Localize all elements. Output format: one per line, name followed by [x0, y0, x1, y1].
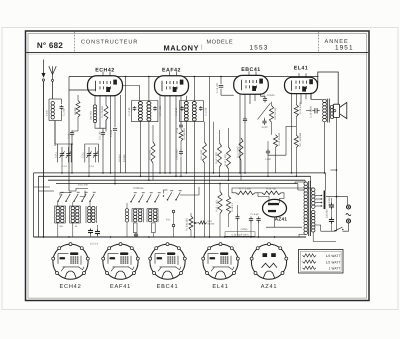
- svg-text:MODELE: MODELE: [207, 39, 234, 45]
- trimmer C01: [68, 147, 70, 154]
- svg-text:C.1 80: C.1 80: [63, 108, 66, 116]
- junction dots on bus: [43, 236, 45, 238]
- capacitor C24: [237, 215, 239, 217]
- svg-text:R.13 5.000: R.13 5.000: [299, 102, 302, 114]
- oscillator coil group 2: [146, 209, 148, 223]
- legend resistor half watt: [303, 254, 317, 257]
- socket EBC41 internal elements: [155, 252, 181, 271]
- svg-text:R.15 1 MQ: R.15 1 MQ: [215, 200, 218, 212]
- resistor R6: [203, 142, 207, 163]
- wire long vertical: [209, 77, 211, 238]
- svg-text:Osc-MO: Osc-MO: [90, 111, 93, 120]
- socket EAF41 pins: [102, 243, 140, 275]
- wire band switch routing: [69, 189, 88, 192]
- svg-text:3.000: 3.000: [262, 126, 269, 129]
- socket EAF41 outline: [103, 244, 138, 279]
- wire vertical 213.5: [213, 122, 215, 173]
- capacitor C27 filter: [258, 217, 260, 219]
- wire bus right drops: [325, 173, 327, 191]
- capacitor C0 below coil: [97, 230, 99, 232]
- power transformer core: [308, 181, 310, 236]
- wire EL41 anode to output transformer: [311, 93, 323, 99]
- svg-text:(100µ): (100µ): [241, 228, 248, 231]
- svg-text:N° 682: N° 682: [37, 41, 64, 50]
- socket ECH42 key notch: [65, 271, 77, 278]
- svg-text:C.5 C.0: C.5 C.0: [90, 243, 99, 246]
- wire IFT1 down: [139, 122, 141, 177]
- svg-text:C.28 25µF (10V): C.28 25µF (10V): [231, 233, 248, 236]
- pick-up terminals P.U.: [172, 210, 175, 213]
- power transformer LT secondary: [311, 211, 315, 233]
- socket EBC41 pins: [149, 243, 187, 275]
- power transformer HT secondary: [311, 188, 315, 209]
- rectifier tube AZ41: [263, 199, 287, 217]
- bus line 2: [39, 175, 311, 177]
- tube ECH42 electrodes: [96, 72, 117, 92]
- svg-text:R.14 1 MQ: R.14 1 MQ: [215, 152, 218, 164]
- socket ECH42 internal elements: [58, 252, 84, 271]
- capacitor C19 tone: [312, 110, 315, 112]
- transformer top wires: [298, 189, 304, 191]
- svg-text:ECH42: ECH42: [59, 284, 81, 290]
- tube EL41 electrodes: [292, 73, 313, 91]
- IFT2 tuning capacitor right: [200, 106, 202, 108]
- resistor B12: [199, 221, 207, 224]
- tube EBC41 electrodes: [242, 71, 263, 91]
- antenna coil group 1: [54, 206, 56, 223]
- socket AZ41 outline: [251, 244, 286, 279]
- IFT2 primary winding: [184, 102, 188, 121]
- wire AZ41 connections: [255, 193, 269, 203]
- svg-text:C.10 80: C.10 80: [175, 107, 178, 116]
- wattage legend table: [299, 250, 344, 274]
- wire top bus right segment to speaker: [318, 72, 338, 105]
- svg-text:EBC41: EBC41: [241, 67, 260, 73]
- socket ECH42 pins: [52, 243, 90, 275]
- svg-text:EL41: EL41: [212, 284, 228, 290]
- resistor R15: [218, 192, 222, 214]
- svg-text:C.13 100: C.13 100: [216, 83, 219, 93]
- svg-text:AZ41: AZ41: [275, 217, 288, 222]
- output transformer secondary: [330, 105, 333, 118]
- oscillator coil L2: [93, 105, 96, 123]
- wire IFT2 down: [185, 122, 187, 173]
- svg-text:1553: 1553: [250, 45, 269, 52]
- header separator line: [26, 52, 368, 54]
- wire OT primary down: [324, 122, 326, 173]
- svg-text:P.U.: P.U.: [166, 219, 171, 222]
- svg-text:2.000: 2.000: [46, 110, 49, 116]
- svg-text:1.500: 1.500: [265, 158, 272, 161]
- wire mains to terminal: [326, 197, 348, 205]
- bus line 4: [56, 183, 298, 185]
- oscillator coil single: [125, 209, 129, 222]
- capacitor C2: [102, 131, 104, 133]
- tube EAF42 electrodes: [162, 72, 183, 92]
- socket EL41 outline: [203, 244, 238, 279]
- svg-text:MALONY: MALONY: [164, 43, 200, 52]
- mains terminal 1: [347, 205, 351, 209]
- speaker: [333, 104, 339, 117]
- svg-text:C.3 50: C.3 50: [110, 129, 113, 137]
- svg-text:C.6 5.000: C.6 5.000: [176, 149, 179, 160]
- legend resistor one watt: [303, 266, 317, 269]
- wire ECH42 pins down: [94, 95, 96, 104]
- wire EBC41 pins down: [239, 94, 241, 173]
- svg-text:C.19 5.000: C.19 5.000: [310, 106, 313, 118]
- resistor R11 AVC: [239, 138, 243, 160]
- padder capacitor: [135, 233, 137, 234]
- socket EAF41 key notch: [115, 271, 127, 278]
- svg-text:CONSTRUCTEUR: CONSTRUCTEUR: [81, 39, 138, 45]
- output transformer core: [326, 99, 328, 123]
- socket AZ41 pins: [250, 243, 288, 275]
- wire mains bottom: [343, 223, 349, 231]
- resistor R14: [218, 143, 222, 167]
- svg-text:R.16 0.1: R.16 0.1: [231, 202, 234, 212]
- IFT2 tuning capacitor left: [181, 106, 183, 108]
- svg-text:1 WATT: 1 WATT: [329, 267, 341, 271]
- svg-text:C.7 1.000: C.7 1.000: [159, 105, 162, 116]
- capacitor C1 antenna: [61, 105, 63, 107]
- power transformer primary winding: [304, 182, 308, 235]
- svg-text:50.000: 50.000: [208, 223, 215, 226]
- svg-text:l'OSCILL.: l'OSCILL.: [133, 187, 144, 190]
- socket AZ41 internal elements: [262, 253, 278, 268]
- resistor R10 AVC: [227, 147, 231, 169]
- svg-text:EL41: EL41: [294, 65, 309, 71]
- output transformer primary: [323, 99, 327, 122]
- socket EAF41 internal elements: [108, 252, 134, 271]
- band switch wafer contacts: [167, 199, 169, 201]
- header divider after No box (dashed): [74, 32, 76, 53]
- svg-text:C.2 180: C.2 180: [98, 131, 101, 140]
- resistor RC cathode EL41: [294, 135, 298, 148]
- socket EL41 internal elements: [208, 252, 234, 271]
- resistor R2: [76, 101, 80, 118]
- mains capacitors: [331, 203, 333, 205]
- svg-text:C.0.1: C.0.1: [81, 152, 84, 158]
- earth terminal arrow: [43, 60, 45, 75]
- svg-text:50.000: 50.000: [118, 154, 121, 162]
- svg-text:R.C. 140/350: R.C. 140/350: [299, 132, 302, 147]
- tube EL41 envelope: [285, 77, 318, 93]
- trimmer CA2: [88, 147, 90, 154]
- resistor R12: [273, 135, 277, 148]
- volume potentiometer P1: [189, 216, 193, 230]
- header divider before ANNEE (dashed): [318, 32, 320, 53]
- bus line 3: [48, 179, 305, 181]
- mains terminal 2: [347, 219, 351, 223]
- wire coil bank 1 to bus: [57, 202, 59, 206]
- svg-text:2 x 8 µF: 2 x 8 µF: [250, 213, 259, 216]
- legend resistor half watt 2: [303, 260, 317, 263]
- coil former 2: [152, 223, 156, 233]
- inner frame line: [28, 34, 367, 299]
- wire EAF42 pins down: [159, 95, 161, 173]
- filter wire: [266, 226, 302, 228]
- svg-text:1/2 WATT: 1/2 WATT: [326, 254, 341, 258]
- trimmer box 2: [85, 144, 99, 162]
- tube ECH42 envelope: [88, 76, 123, 96]
- oscillator coil group 1: [131, 209, 133, 223]
- bus AVC line: [34, 172, 326, 174]
- svg-text:50.000: 50.000: [74, 107, 77, 115]
- svg-text:1/2 WATT: 1/2 WATT: [326, 260, 341, 264]
- voltage selector taps: [315, 195, 322, 197]
- resistor R5: [151, 142, 155, 163]
- wire vertical from bus: [68, 77, 70, 192]
- wire EL41 pins down: [291, 93, 293, 173]
- capacitor C14: [264, 119, 266, 121]
- svg-text:C.11 80: C.11 80: [205, 107, 208, 116]
- svg-text:R.12 20.000: R.12 20.000: [278, 132, 281, 146]
- IFT2 secondary winding: [192, 102, 196, 121]
- svg-text:EBC41: EBC41: [157, 284, 179, 290]
- svg-text:EAF41: EAF41: [110, 284, 131, 290]
- tube EAF42 envelope: [155, 76, 189, 96]
- voltage selector bar: [324, 191, 326, 210]
- svg-text:R.11 2 MQ: R.11 2 MQ: [236, 146, 239, 158]
- outer frame: [26, 31, 370, 301]
- resistor R16b: [226, 196, 230, 214]
- svg-text:C.0.1: C.0.1: [89, 165, 95, 168]
- svg-text:ECH42: ECH42: [95, 68, 114, 74]
- IFT1 tuning capacitor left: [134, 106, 136, 108]
- svg-text:C.A.1: C.A.1: [54, 151, 57, 158]
- capacitor C18 coupling: [180, 123, 182, 125]
- svg-text:C.17 80: C.17 80: [128, 107, 131, 116]
- socket ECH42 outline: [53, 244, 88, 279]
- trimmer CA1: [61, 147, 63, 154]
- socket EL41 pins: [202, 243, 240, 275]
- socket EBC41 outline: [150, 244, 185, 279]
- junction dots on buses: [110, 172, 112, 174]
- wire transformer bottom: [299, 235, 306, 238]
- IF transformer 2 frame: [179, 101, 181, 122]
- antenna coil group 3: [85, 206, 87, 223]
- coil former 1: [133, 223, 137, 233]
- IF transformer 1 frame: [131, 101, 133, 122]
- socket EL41 key notch: [215, 271, 227, 278]
- HT+ top bus wire: [69, 76, 319, 78]
- wire EL41 cathode branch: [286, 125, 296, 127]
- wire grid cap line: [120, 95, 122, 173]
- capacitor C26 filter: [250, 217, 252, 219]
- band switch contacts B: [130, 201, 132, 203]
- antenna symbol: [49, 66, 53, 74]
- IFT1 primary winding: [138, 102, 142, 121]
- svg-text:R.9 0.5 MQ: R.9 0.5 MQ: [274, 108, 277, 120]
- svg-text:C.16: C.16: [67, 133, 70, 139]
- svg-text:p.10.000: p.10.000: [78, 184, 89, 187]
- band switch contacts A: [57, 200, 59, 202]
- volume potentiometer arrow: [258, 103, 271, 120]
- socket EBC41 key notch: [162, 271, 174, 278]
- IFT1 tuning capacitor right: [154, 106, 156, 108]
- resistor R4: [179, 130, 183, 142]
- resistor R13 grid leak EL41: [294, 105, 298, 117]
- svg-text:B.12: B.12: [208, 220, 213, 223]
- trimmer C02: [95, 147, 97, 154]
- antenna coil group 2: [69, 206, 71, 223]
- svg-text:R.10 1 MQ: R.10 1 MQ: [224, 154, 227, 166]
- capacitor C12: [244, 117, 246, 119]
- IFT1 secondary winding: [147, 102, 151, 121]
- svg-text:C.A.1: C.A.1: [62, 165, 68, 168]
- svg-text:2x5.000: 2x5.000: [325, 209, 328, 218]
- chassis ground bus: [34, 236, 307, 238]
- svg-text:R.1 70.000: R.1 70.000: [101, 106, 104, 118]
- capacitor C21: [267, 149, 269, 151]
- wire bus left drops: [33, 173, 35, 237]
- svg-text:AZ41: AZ41: [261, 284, 278, 290]
- svg-text:C.18: C.18: [176, 127, 179, 133]
- wire speaker return: [336, 117, 338, 231]
- wire left bus into switch rows: [34, 186, 51, 188]
- svg-text:EAF42: EAF42: [162, 68, 181, 74]
- mains AC tilde: [346, 214, 351, 216]
- tube EBC41 envelope: [234, 75, 269, 94]
- capacitor C16: [71, 131, 73, 133]
- svg-text:1951: 1951: [335, 45, 354, 52]
- capacitor C5 below coil: [90, 229, 92, 231]
- antenna coil L1: [49, 98, 62, 100]
- trimmer box 1: [58, 144, 72, 162]
- capacitor C6: [180, 150, 182, 152]
- resistor R1: [104, 105, 108, 120]
- antenna wire down: [52, 82, 54, 100]
- resistor R9 volume: [269, 105, 273, 122]
- svg-text:40.000: 40.000: [123, 154, 126, 162]
- header tick after MALONY: [201, 45, 203, 50]
- capacitor C13 grid: [220, 85, 222, 87]
- electrolytic label box: [225, 232, 255, 237]
- earth wire down: [43, 81, 45, 237]
- svg-text:P.1 500.000: P.1 500.000: [186, 218, 189, 231]
- socket AZ41 key notch: [263, 271, 275, 278]
- svg-text:R.4 50.000: R.4 50.000: [183, 128, 186, 140]
- wire into ECH42 grid: [69, 89, 96, 91]
- capacitor C3: [113, 127, 117, 131]
- svg-text:R.5 2 MQ: R.5 2 MQ: [149, 150, 152, 160]
- svg-text:R.6 1 MQ: R.6 1 MQ: [200, 150, 203, 160]
- mains switch: [335, 227, 343, 231]
- wire EBC41 grid left: [220, 77, 222, 85]
